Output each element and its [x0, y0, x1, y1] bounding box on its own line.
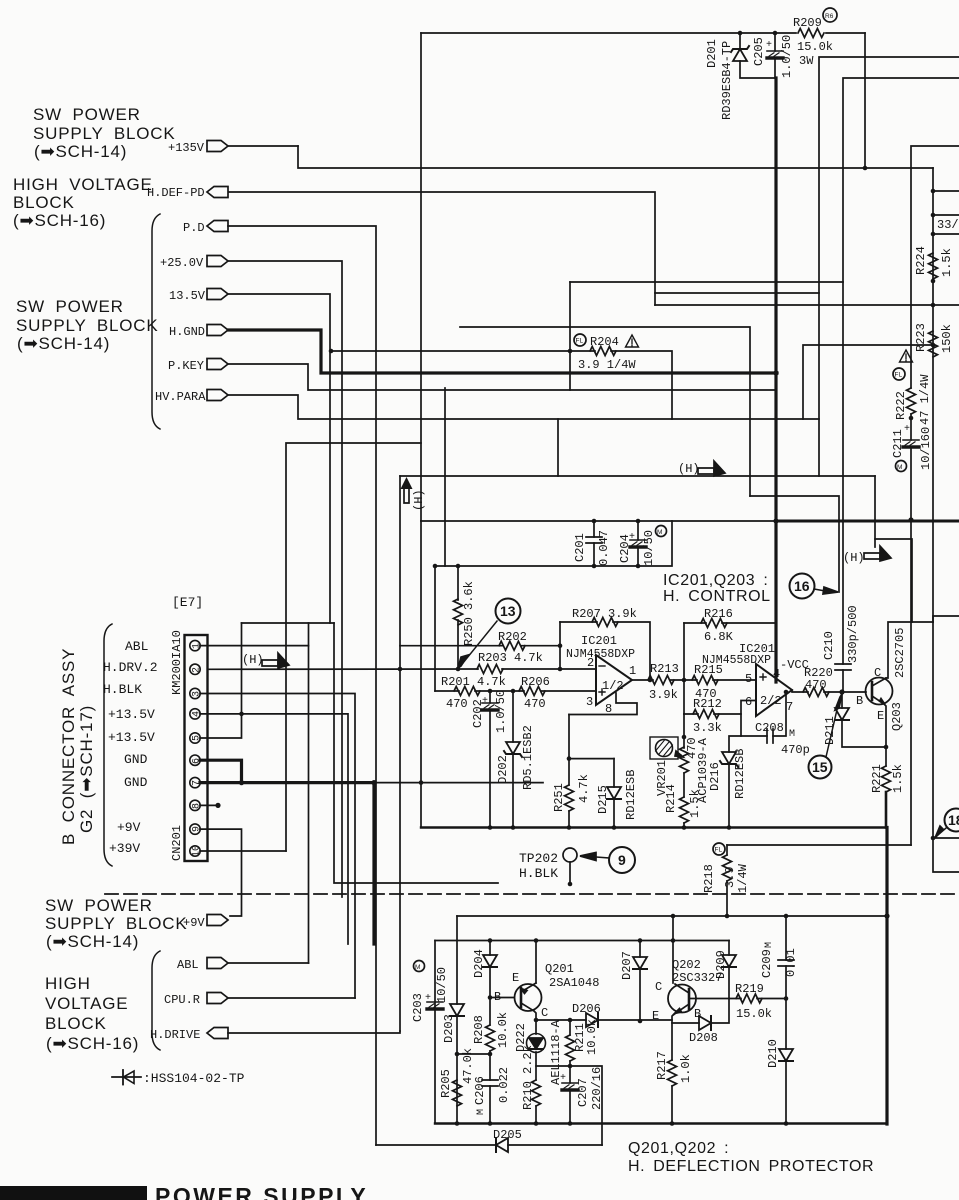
svg-text:POWER SUPPLY: POWER SUPPLY — [155, 1183, 368, 1200]
svg-text:R202: R202 — [498, 630, 527, 644]
svg-text:3.3k: 3.3k — [693, 721, 722, 735]
warning triangle near R222 — [900, 350, 913, 362]
connector CN201 body — [185, 635, 208, 861]
svg-text:Q203: Q203 — [890, 702, 904, 731]
wire y1066 to D205 riser — [536, 1066, 602, 1145]
resistor R201 — [454, 687, 480, 696]
svg-text:R205: R205 — [439, 1069, 453, 1098]
resistor R219 — [729, 998, 786, 1000]
svg-text:R6: R6 — [825, 13, 834, 20]
capacitor C205 — [774, 33, 776, 51]
svg-text:C208: C208 — [755, 721, 784, 735]
svg-text:9: 9 — [618, 852, 626, 868]
svg-text:13: 13 — [500, 603, 516, 619]
legend test point symbol — [112, 1076, 141, 1078]
pin8 stub op-amp1 — [569, 693, 637, 715]
node D203/R208 bottoms y1054 — [457, 1053, 490, 1055]
node pin7 gnd x423 — [419, 780, 424, 785]
svg-text:+: + — [560, 1073, 566, 1084]
svg-text:VOLTAGE: VOLTAGE — [45, 994, 128, 1013]
svg-text:CPU.R: CPU.R — [164, 993, 200, 1007]
wire R212 line y714 — [684, 701, 756, 715]
svg-text:(H): (H) — [242, 653, 264, 667]
svg-text:C203: C203 — [411, 993, 425, 1022]
svg-text:1.5k: 1.5k — [688, 789, 702, 818]
wire ABL riser x308 (pin1 to bottom ABL port) — [308, 623, 310, 963]
resistor R211 — [569, 1020, 571, 1035]
bottom title black bar — [0, 1186, 147, 1200]
svg-text:M: M — [764, 942, 775, 948]
diode D207 — [639, 941, 641, 958]
bracket connector block — [104, 624, 112, 866]
svg-text:C209: C209 — [760, 949, 774, 978]
svg-text:R201 4.7k: R201 4.7k — [441, 675, 506, 689]
svg-text:FL: FL — [715, 847, 723, 854]
svg-text:HIGH VOLTAGE: HIGH VOLTAGE — [13, 175, 153, 194]
wire right-edge y57 to x820 vertical — [819, 57, 959, 476]
wire Q202 base to x729 — [689, 998, 729, 1000]
svg-text:IC201,Q203 :: IC201,Q203 : — [663, 572, 768, 589]
wire R222 to C211 — [910, 414, 912, 440]
svg-text:B CONNECTOR ASSY: B CONNECTOR ASSY — [59, 648, 78, 845]
label D201 — [705, 39, 719, 68]
svg-text:R206: R206 — [521, 675, 550, 689]
svg-text:TP202: TP202 — [519, 851, 558, 866]
svg-text:M: M — [476, 1109, 487, 1115]
circle 18 partial right edge with arrow — [945, 809, 959, 832]
wire pin7 GND thick then thin — [200, 781, 375, 784]
svg-text:+39V: +39V — [109, 841, 140, 856]
wire pin10 — [200, 850, 286, 852]
pin 1 — [190, 640, 200, 650]
wire x334 down to y883 — [334, 623, 498, 883]
node C202 top — [488, 689, 493, 694]
wire Q201 base — [490, 997, 514, 999]
wire +135V long line y168 — [298, 146, 933, 168]
svg-text:+: + — [482, 696, 488, 707]
bracket high voltage block lower — [152, 951, 160, 1050]
wire Q203 emitter down — [884, 704, 886, 766]
svg-text:6: 6 — [745, 695, 752, 709]
svg-text:150k: 150k — [940, 324, 954, 353]
diode D210 — [785, 999, 787, 1050]
node C205 tap — [773, 31, 778, 36]
node R220/C210/D211 — [839, 689, 844, 694]
wire +9V rail y917 — [457, 915, 887, 917]
svg-text:H.DEF-PD: H.DEF-PD — [147, 186, 205, 200]
wire +13.5V distribution y623 — [242, 622, 335, 624]
svg-text:ABL: ABL — [177, 958, 199, 972]
svg-text:(➡SCH-14): (➡SCH-14) — [46, 932, 139, 951]
resistor R205 — [453, 1080, 462, 1106]
diode D202 zener — [512, 691, 514, 742]
capacitor C204 — [637, 521, 639, 540]
wire x422 lower segment — [420, 521, 422, 828]
svg-text:3: 3 — [586, 695, 593, 709]
svg-text:R218: R218 — [702, 864, 716, 893]
wire pin3 to x355 — [200, 694, 355, 999]
svg-text:R212: R212 — [693, 697, 722, 711]
svg-text:SW POWER: SW POWER — [16, 297, 124, 316]
(H) flag vertical near x435 — [404, 488, 409, 503]
svg-text:13.5V: 13.5V — [169, 289, 206, 303]
svg-text:10/50: 10/50 — [435, 967, 449, 1003]
svg-text:(➡SCH-14): (➡SCH-14) — [34, 142, 127, 161]
wire x445 — [444, 388, 446, 566]
resistor R209 — [798, 29, 824, 38]
circle 15 with arrow — [809, 756, 832, 779]
svg-text:3.9: 3.9 — [723, 866, 737, 888]
node x560 pin2 — [558, 667, 563, 672]
capacitor C206 0.022 — [489, 1054, 491, 1080]
resistor R250 — [457, 566, 459, 669]
svg-text:10/160: 10/160 — [919, 427, 933, 470]
svg-text:H.BLK: H.BLK — [103, 682, 142, 697]
svg-text:M: M — [415, 964, 420, 971]
node D202 top — [511, 689, 516, 694]
capacitor C203 — [427, 1002, 443, 1009]
svg-text:R214: R214 — [664, 784, 678, 813]
pin 2 — [190, 664, 200, 674]
svg-text:R250 3.6k: R250 3.6k — [462, 581, 476, 646]
wire R202 line y646 — [400, 645, 560, 647]
svg-text:10.0k: 10.0k — [585, 1019, 599, 1055]
pin 6 — [190, 755, 200, 765]
transistor Q203 2SC2705 — [866, 678, 893, 705]
svg-text:(H): (H) — [843, 551, 865, 565]
svg-text:H. CONTROL: H. CONTROL — [663, 588, 771, 605]
wire x560 (R202 to pin2, and up to R207) — [559, 622, 561, 669]
svg-text:47 1/4W: 47 1/4W — [918, 374, 932, 425]
rotated block label B CONNECTOR ASSY G2 — [59, 648, 78, 845]
svg-text:IC201: IC201 — [581, 634, 617, 648]
wire y327 — [460, 327, 750, 496]
svg-text:M: M — [897, 464, 902, 471]
wire y566 — [435, 521, 672, 566]
svg-text:C201: C201 — [573, 533, 587, 562]
svg-text:1.0/50: 1.0/50 — [494, 690, 508, 733]
node D201 tap — [738, 31, 743, 36]
wire ABL — [228, 962, 309, 964]
svg-text:10.0k: 10.0k — [496, 1012, 510, 1048]
svg-text:18: 18 — [948, 812, 959, 828]
wire pin1 to ABL riser — [200, 645, 309, 647]
svg-text:+13.5V: +13.5V — [108, 707, 155, 722]
wire y443 left — [286, 443, 421, 851]
wire y305 long — [655, 304, 959, 306]
node x933 y838 + stub — [931, 836, 936, 841]
svg-text:10/50: 10/50 — [642, 530, 656, 566]
svg-text:R224: R224 — [914, 246, 928, 275]
svg-text:R217: R217 — [655, 1051, 669, 1080]
resistor R220 — [803, 688, 829, 697]
capacitor C211 — [903, 440, 919, 447]
wire HV.PARA to x298 down to y419 — [228, 395, 819, 419]
wire Q201 emitter up — [535, 941, 537, 984]
node R250 bottom — [456, 667, 461, 672]
svg-text:15: 15 — [812, 759, 828, 775]
capacitor C207 — [569, 1066, 571, 1083]
svg-text:470p: 470p — [781, 743, 810, 757]
svg-text:+: + — [904, 424, 910, 435]
svg-text:G2 (➡SCH-17): G2 (➡SCH-17) — [77, 705, 96, 833]
svg-text:C: C — [874, 666, 881, 680]
svg-text:(➡SCH-16): (➡SCH-16) — [13, 211, 106, 230]
svg-text:H.BLK: H.BLK — [519, 866, 558, 881]
svg-text:R251: R251 — [552, 783, 566, 812]
wire y616 right exit — [933, 616, 959, 622]
resistor R207 feedback — [560, 622, 650, 680]
svg-text:1.0/50: 1.0/50 — [780, 35, 794, 78]
svg-text:15.0k: 15.0k — [797, 40, 833, 54]
svg-text:H.DRIVE: H.DRIVE — [150, 1028, 200, 1042]
wire +135V stub from arrow — [228, 145, 298, 147]
pin 8 — [190, 800, 200, 810]
svg-text:H.GND: H.GND — [169, 325, 205, 339]
wire thick ground vertical x776 (C205/D201 bottom to IC201 pin4) — [774, 78, 777, 682]
svg-text:E: E — [652, 1009, 659, 1023]
svg-text:(H): (H) — [678, 462, 700, 476]
node Q201 collector y1020 — [534, 1018, 539, 1023]
svg-text:BLOCK: BLOCK — [13, 193, 75, 212]
op-amp U1b IC201 2/2 triangle — [756, 664, 792, 716]
capacitor C208 — [741, 692, 786, 736]
svg-text:R213: R213 — [650, 662, 679, 676]
svg-text:2SA1048: 2SA1048 — [549, 976, 599, 990]
svg-text:RD39ESB4-TP: RD39ESB4-TP — [720, 41, 734, 120]
wire x684 riser R216/R212 — [683, 623, 685, 714]
svg-text:ABL: ABL — [125, 639, 148, 654]
svg-text:GND: GND — [124, 752, 148, 767]
node R211 bottom y1066 — [568, 1064, 573, 1069]
circle 13 with arrow — [496, 599, 521, 624]
svg-text:C: C — [655, 980, 662, 994]
potentiometer VR201 — [650, 737, 678, 759]
resistor R221 — [882, 766, 891, 792]
svg-text:1: 1 — [629, 664, 636, 678]
svg-text:D202: D202 — [496, 755, 510, 784]
pin 3 — [190, 688, 200, 698]
svg-text:+25.0V: +25.0V — [160, 256, 204, 270]
label KM200IA10 — [170, 630, 184, 695]
wire bottom rail y1123.5 — [435, 1122, 887, 1124]
svg-text:5: 5 — [745, 672, 752, 686]
svg-text:+9V: +9V — [183, 916, 205, 930]
wire x569 pin8 down to R251/D215 — [569, 715, 614, 759]
svg-text:3.9k: 3.9k — [649, 688, 678, 702]
circle 9 with arrow — [609, 847, 635, 873]
resistor R223 — [929, 331, 938, 357]
pin 5 — [190, 733, 200, 743]
node C211/ground bus — [908, 517, 913, 522]
svg-text:470: 470 — [805, 678, 827, 692]
svg-text:H. DEFLECTION PROTECTOR: H. DEFLECTION PROTECTOR — [628, 1158, 874, 1175]
resistor R217 — [668, 1060, 677, 1086]
svg-text:220/16: 220/16 — [590, 1067, 604, 1110]
pin 10 — [190, 846, 200, 856]
diode D204 — [489, 941, 491, 956]
svg-text:NJM4558DXP: NJM4558DXP — [702, 654, 771, 667]
circle 16 with arrow — [790, 574, 815, 599]
svg-text:R216: R216 — [704, 607, 733, 621]
svg-text:R210 2.2k: R210 2.2k — [521, 1045, 535, 1110]
svg-text:BLOCK: BLOCK — [45, 1014, 107, 1033]
transistor Q202 2SC3327 — [668, 985, 696, 1013]
wire y476 transit — [400, 475, 875, 477]
svg-text:3.9 1/4W: 3.9 1/4W — [578, 358, 636, 372]
wire Q203 collector up and right — [886, 622, 933, 678]
wire pin4 +13.5V — [200, 714, 348, 944]
svg-text:HV.PARA: HV.PARA — [155, 390, 206, 404]
svg-text:2: 2 — [587, 656, 594, 670]
pin 9 — [190, 824, 200, 834]
test point TP202 circle — [563, 848, 577, 862]
resistor R208 — [489, 998, 491, 1026]
svg-text:1/4W: 1/4W — [736, 863, 750, 893]
svg-text:R223: R223 — [914, 323, 928, 352]
svg-text:1.0k: 1.0k — [679, 1054, 693, 1083]
diode D205 with wire y1145 — [376, 1144, 602, 1146]
diode D203 — [450, 1004, 464, 1016]
diode D211 — [841, 692, 843, 708]
wire top VCC rail y33 — [421, 32, 865, 34]
diode D201 (zener RD39ESB4-TP) — [739, 33, 741, 49]
svg-text:D201: D201 — [705, 39, 719, 68]
svg-text:R203 4.7k: R203 4.7k — [478, 651, 543, 665]
node x933 y192 — [931, 213, 936, 218]
pin 7 — [190, 777, 200, 787]
svg-text:1.5k: 1.5k — [891, 764, 905, 793]
svg-text:2SC3327: 2SC3327 — [672, 971, 722, 985]
svg-text:3W: 3W — [799, 54, 814, 68]
wire x241.5 down to pin4 — [241, 623, 243, 714]
wire op1 output y680 — [632, 679, 756, 681]
label CN201 — [170, 825, 184, 861]
svg-text:Q201,Q202 :: Q201,Q202 : — [628, 1140, 729, 1157]
node junction R209/+135V — [863, 166, 868, 171]
resistor R215 — [692, 676, 718, 685]
node output x786 — [784, 690, 789, 695]
svg-text:D215: D215 — [596, 785, 610, 814]
svg-text::HSS104-02-TP: :HSS104-02-TP — [143, 1071, 245, 1086]
wire y845 R218 to x911 — [727, 844, 911, 846]
wire y521 thick right part (ground bus to right edge) — [776, 520, 959, 523]
svg-text:470: 470 — [446, 697, 468, 711]
svg-text:RD12ESB: RD12ESB — [624, 770, 638, 820]
svg-text:SUPPLY BLOCK: SUPPLY BLOCK — [45, 914, 187, 933]
wire gnd drop x374 thick — [372, 783, 375, 944]
svg-text:2: 2 — [192, 667, 203, 673]
resistor R214 — [680, 797, 689, 823]
nodes on ground rail — [488, 825, 493, 830]
circled FL R222 — [893, 368, 905, 380]
svg-text:M: M — [789, 729, 795, 740]
wire R209 right leg x865 down to +135V line — [864, 33, 866, 168]
node R211 top — [568, 1018, 573, 1023]
wire x435 left side of protector — [434, 941, 436, 1124]
wire +25.0V down x342 — [228, 261, 342, 897]
circled FL R204 — [574, 334, 586, 346]
wire pin9 to +9V port — [200, 829, 242, 916]
svg-text:0.022: 0.022 — [497, 1067, 511, 1103]
svg-text:SW POWER: SW POWER — [45, 896, 153, 915]
wire H.DEF-PD right stub — [933, 190, 959, 192]
transistor Q201 2SA1048 — [515, 984, 542, 1011]
svg-text:+135V: +135V — [168, 141, 205, 155]
svg-text:0.047: 0.047 — [597, 530, 611, 566]
resistor R212 — [693, 710, 719, 719]
svg-text:2SC2705: 2SC2705 — [893, 628, 907, 678]
wire H.DRIVE — [228, 1031, 400, 1033]
svg-text:R221: R221 — [870, 764, 884, 793]
wire x457 from y916 down through D203 — [456, 916, 458, 1004]
capacitor C210 — [835, 664, 851, 670]
resistor R206 — [519, 687, 545, 696]
diode D206 — [586, 1013, 598, 1027]
svg-text:D216: D216 — [708, 762, 722, 791]
diode D215 — [613, 759, 615, 787]
svg-text:[E7]: [E7] — [172, 595, 203, 610]
wire left vertical x422 (top rail down to IC box) — [420, 33, 422, 521]
svg-text:+: + — [425, 993, 431, 1004]
svg-text:R207 3.9k: R207 3.9k — [572, 607, 637, 621]
svg-text:M: M — [657, 529, 662, 536]
wire Q202 emitter down — [672, 1013, 676, 1060]
wire x933 main right vertical — [933, 168, 959, 872]
wire x558 HV.PARA drop — [557, 419, 559, 476]
svg-text:H.DRV.2: H.DRV.2 — [103, 660, 158, 675]
svg-text:470: 470 — [524, 697, 546, 711]
wire Q201 collector down — [534, 1011, 536, 1020]
svg-text:B: B — [694, 1007, 701, 1021]
wire y521 VCC rail — [421, 520, 776, 522]
resistor R202 — [499, 641, 525, 650]
wire y293 transit — [655, 292, 819, 294]
wire op2 output y692 — [792, 690, 866, 692]
wire x875 flag stem and y539/x912 — [875, 539, 912, 622]
op-amp U1 IC201 1/2 triangle — [596, 655, 632, 705]
svg-text:D206: D206 — [572, 1002, 601, 1016]
svg-text:FL: FL — [576, 338, 584, 345]
svg-text:+: + — [629, 532, 635, 543]
svg-text:2/2: 2/2 — [760, 694, 782, 708]
wire Q202 collector riser x673 — [672, 916, 674, 983]
wire pin8 stub — [200, 804, 216, 806]
svg-text:0.01: 0.01 — [784, 948, 798, 977]
resistor R218 vertical — [726, 845, 728, 855]
diode D222 (circled) — [535, 1020, 537, 1034]
node R213/R215/x684 — [682, 678, 687, 683]
svg-text:P.D: P.D — [183, 221, 205, 235]
resistor R216 to -VCC rail — [684, 622, 776, 624]
wire right-edge y78 to x843 vertical (to C210) — [843, 78, 959, 664]
wire P.KEY to x308 down to y390 — [228, 364, 776, 390]
wire P.D down x376 — [228, 226, 376, 1145]
resistor R222 — [907, 388, 916, 414]
svg-text:E: E — [512, 971, 519, 985]
svg-text:B: B — [856, 694, 863, 708]
resistor R251 — [568, 759, 570, 785]
svg-text:C207: C207 — [576, 1078, 590, 1107]
svg-text:R204: R204 — [590, 335, 619, 349]
wire pin5 tie to pin4 — [200, 714, 242, 738]
svg-text:D208: D208 — [689, 1031, 718, 1045]
wire x570 from y305 to R204 — [569, 282, 571, 390]
wire CPU.R — [228, 997, 355, 999]
svg-text:R219: R219 — [735, 982, 764, 996]
svg-text:C210: C210 — [822, 631, 836, 660]
resistor R210 — [532, 1080, 541, 1106]
